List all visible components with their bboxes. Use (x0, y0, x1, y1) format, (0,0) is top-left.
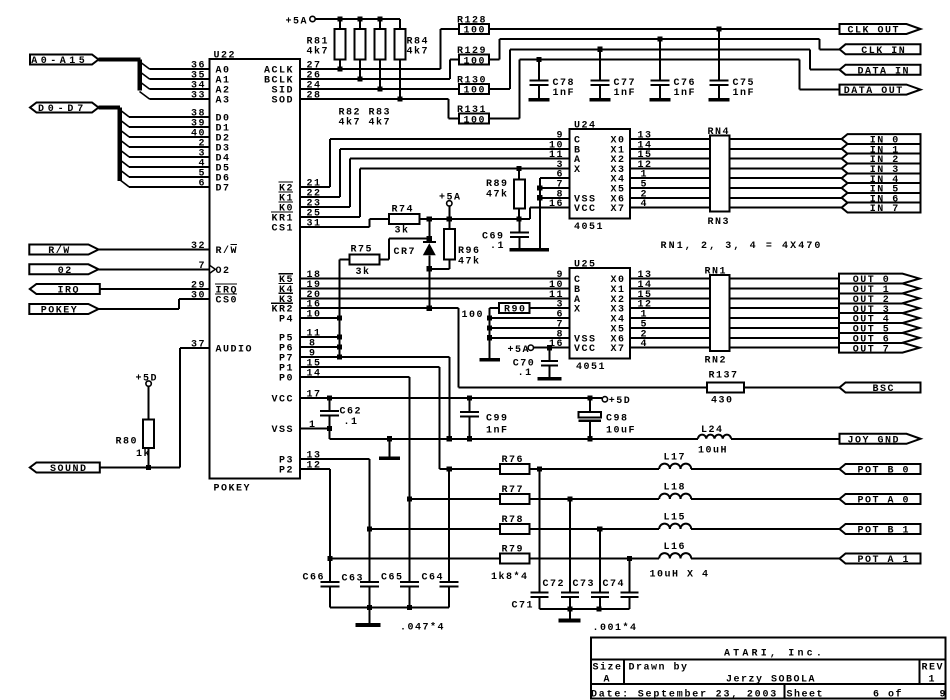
svg-text:+5A: +5A (285, 17, 308, 28)
svg-text:X7: X7 (610, 344, 625, 355)
svg-text:3k: 3k (395, 225, 410, 237)
svg-text:4k7 4k7: 4k7 4k7 (339, 117, 392, 129)
svg-text:1nF: 1nF (674, 88, 697, 99)
svg-text:C98: C98 (606, 414, 629, 425)
svg-text:U22: U22 (214, 51, 237, 62)
svg-text:X7: X7 (610, 204, 625, 215)
svg-text:SOUND: SOUND (50, 464, 88, 475)
svg-text:1nF: 1nF (553, 88, 576, 99)
svg-text:430: 430 (711, 396, 734, 407)
svg-text:4051: 4051 (576, 362, 606, 373)
svg-text:R/W: R/W (216, 245, 239, 257)
svg-text:SOD: SOD (272, 96, 295, 107)
svg-text:CS1: CS1 (272, 224, 295, 235)
svg-text:1nF: 1nF (733, 88, 756, 99)
svg-text:Size: Size (593, 662, 623, 674)
svg-text:L17: L17 (664, 453, 687, 464)
svg-text:IN 7: IN 7 (870, 204, 900, 215)
svg-text:DATA OUT: DATA OUT (844, 86, 904, 97)
svg-text:L16: L16 (664, 542, 687, 553)
svg-text:+5D: +5D (136, 373, 159, 384)
svg-text:REV: REV (922, 663, 945, 674)
svg-text:BSC: BSC (872, 384, 895, 395)
svg-text:U24: U24 (574, 121, 597, 132)
svg-text:O2: O2 (216, 266, 231, 277)
svg-text:6: 6 (198, 179, 206, 190)
svg-text:+5D: +5D (609, 396, 632, 407)
svg-text:R76: R76 (502, 455, 525, 466)
svg-text:D0-D7: D0-D7 (38, 104, 87, 115)
svg-text:RN4: RN4 (708, 127, 731, 138)
svg-text:R80: R80 (115, 437, 138, 448)
svg-text:D7: D7 (216, 184, 231, 195)
svg-text:P2: P2 (279, 466, 294, 477)
svg-text:C74: C74 (603, 579, 626, 590)
svg-text:X: X (574, 305, 582, 316)
svg-text:1k8*4: 1k8*4 (491, 571, 529, 583)
svg-text:POT B 1: POT B 1 (857, 526, 910, 537)
svg-text:+5A: +5A (507, 345, 530, 356)
svg-text:R96: R96 (458, 246, 481, 257)
svg-text:R79: R79 (502, 545, 525, 556)
svg-text:4k7: 4k7 (307, 46, 330, 58)
svg-text:1: 1 (929, 675, 937, 686)
svg-text:C62: C62 (340, 407, 363, 418)
svg-text:32: 32 (191, 241, 206, 252)
svg-text:4051: 4051 (574, 222, 604, 233)
svg-text:100: 100 (464, 115, 487, 126)
svg-text:30: 30 (191, 291, 206, 302)
svg-text:C73: C73 (573, 579, 596, 590)
svg-text:100: 100 (464, 26, 487, 37)
svg-text:P0: P0 (279, 374, 294, 385)
svg-text:C72: C72 (543, 579, 566, 590)
svg-text:VCC: VCC (272, 395, 295, 406)
svg-text:CLK IN: CLK IN (861, 46, 906, 57)
svg-text:.001*4: .001*4 (593, 622, 638, 634)
svg-text:R90: R90 (504, 305, 527, 316)
svg-text:Sheet: Sheet (787, 689, 825, 700)
svg-text:POKEY: POKEY (41, 306, 79, 317)
svg-text:RN1: RN1 (705, 266, 728, 277)
svg-text:Jerzy SOBOLA: Jerzy SOBOLA (726, 675, 816, 686)
svg-text:CS0: CS0 (216, 296, 239, 307)
svg-text:CR7: CR7 (394, 247, 417, 258)
svg-text:R77: R77 (502, 485, 525, 496)
svg-text:C71: C71 (512, 601, 535, 612)
svg-text:C66: C66 (303, 573, 326, 584)
svg-text:POT A 0: POT A 0 (857, 496, 910, 507)
svg-text:4k7: 4k7 (407, 46, 430, 58)
svg-text:100: 100 (464, 56, 487, 67)
svg-text:U25: U25 (574, 260, 597, 271)
svg-text:R137: R137 (709, 371, 739, 382)
svg-text:A: A (604, 675, 612, 686)
svg-text:9: 9 (940, 690, 948, 700)
svg-text:.1: .1 (490, 241, 505, 252)
svg-text:RN3: RN3 (708, 217, 731, 228)
svg-text:L15: L15 (664, 513, 687, 524)
svg-text:Drawn by: Drawn by (629, 662, 689, 674)
svg-text:A0-A15: A0-A15 (31, 56, 88, 67)
svg-text:L24: L24 (701, 425, 724, 436)
svg-text:100: 100 (464, 86, 487, 97)
svg-text:1k: 1k (136, 448, 151, 460)
svg-text:C64: C64 (422, 573, 445, 584)
svg-text:.1: .1 (518, 368, 533, 379)
svg-text:POT B 0: POT B 0 (857, 466, 910, 477)
svg-text:.047*4: .047*4 (400, 622, 445, 634)
svg-text:1nF: 1nF (486, 426, 509, 437)
svg-text:JOY GND: JOY GND (847, 435, 900, 446)
svg-text:+5A: +5A (439, 193, 462, 204)
svg-text:CLK OUT: CLK OUT (847, 26, 900, 37)
svg-text:10uH X 4: 10uH X 4 (650, 570, 710, 581)
svg-text:10uH: 10uH (698, 445, 728, 456)
svg-text:7: 7 (198, 261, 206, 272)
svg-text:16: 16 (549, 199, 564, 210)
svg-text:R74: R74 (392, 205, 415, 216)
svg-text:VCC: VCC (574, 344, 597, 355)
svg-text:100: 100 (461, 310, 484, 321)
svg-text:33: 33 (191, 91, 206, 102)
svg-text:1nF: 1nF (614, 88, 637, 99)
svg-text:POKEY: POKEY (214, 484, 252, 495)
svg-text:37: 37 (191, 340, 206, 351)
svg-text:VSS: VSS (272, 425, 295, 436)
svg-text:R89: R89 (486, 179, 509, 190)
svg-text:C99: C99 (486, 414, 509, 425)
svg-text:R75: R75 (351, 244, 374, 255)
svg-text:02: 02 (58, 266, 73, 277)
svg-text:3k: 3k (356, 266, 371, 278)
svg-text:POT A 1: POT A 1 (857, 555, 910, 566)
svg-text:IRQ: IRQ (58, 286, 81, 297)
svg-text:47k: 47k (458, 256, 481, 268)
svg-text:ATARI, Inc.: ATARI, Inc. (724, 649, 825, 660)
svg-text:AUDIO: AUDIO (216, 345, 254, 356)
svg-text:RN2: RN2 (705, 356, 728, 367)
svg-text:4: 4 (641, 199, 649, 210)
svg-text:L18: L18 (664, 483, 687, 494)
svg-text:DATA IN: DATA IN (857, 66, 910, 77)
svg-text:C63: C63 (342, 574, 365, 585)
svg-text:A3: A3 (216, 96, 231, 107)
svg-text:10uF: 10uF (606, 426, 636, 437)
svg-text:6 of: 6 of (873, 689, 903, 700)
svg-text:.1: .1 (344, 417, 359, 428)
svg-text:R78: R78 (502, 515, 525, 526)
svg-text:C65: C65 (381, 573, 404, 584)
svg-text:47k: 47k (486, 189, 509, 201)
svg-text:P4: P4 (279, 315, 294, 326)
svg-text:OUT 7: OUT 7 (853, 344, 891, 355)
svg-text:X: X (574, 165, 582, 176)
svg-text:Date: September 23, 2003: Date: September 23, 2003 (591, 689, 778, 700)
svg-text:VCC: VCC (574, 204, 597, 215)
svg-text:R/W: R/W (48, 245, 71, 257)
svg-text:RN1, 2, 3, 4 = 4X470: RN1, 2, 3, 4 = 4X470 (661, 241, 823, 252)
